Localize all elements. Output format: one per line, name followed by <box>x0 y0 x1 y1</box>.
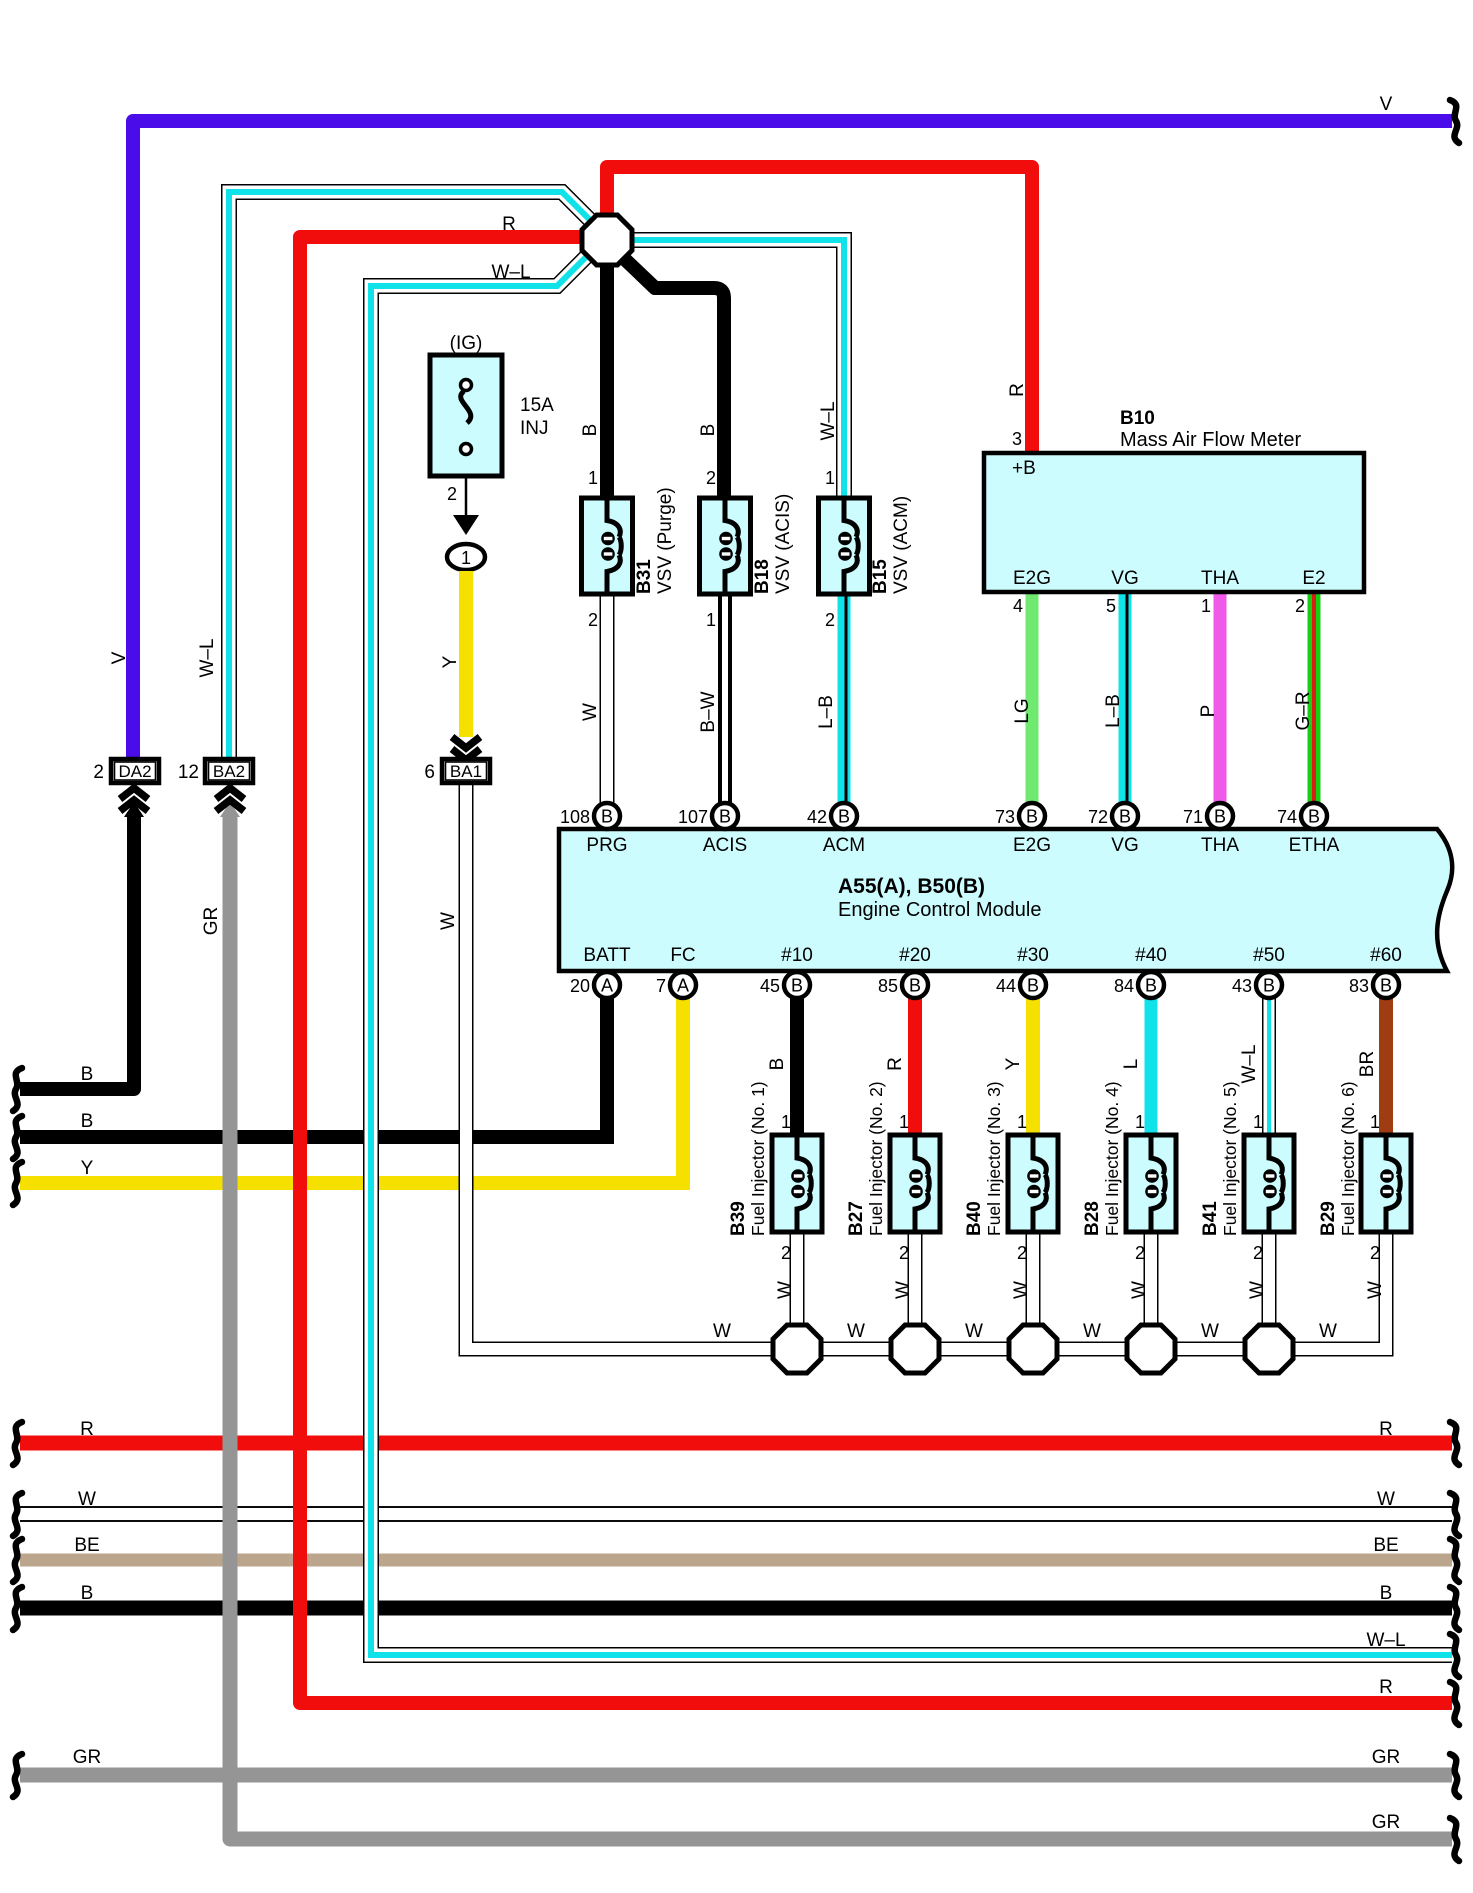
ECM pin 44 <box>1020 972 1046 998</box>
wire B ground bus (to ECM BATT) <box>20 1130 614 1144</box>
svg-text:A: A <box>677 976 689 996</box>
svg-text:R: R <box>1379 1677 1393 1698</box>
svg-text:P: P <box>1198 705 1219 718</box>
ECM pin 71 <box>1207 803 1233 829</box>
svg-text:BA1: BA1 <box>450 762 482 781</box>
ECM pin 20 <box>594 972 620 998</box>
break B left <box>13 1116 22 1159</box>
svg-text:2: 2 <box>825 610 835 630</box>
VSV solenoid B18 <box>700 498 751 594</box>
svg-text:B: B <box>1380 1583 1393 1604</box>
wire BR ECM #60 to injector No.6 <box>1379 997 1393 1137</box>
wire W fuel injector No.3 to junction <box>1026 1232 1041 1349</box>
junction splice injector bus 3 <box>1009 1325 1057 1373</box>
svg-text:W: W <box>893 1281 914 1299</box>
svg-text:Fuel Injector (No. 4): Fuel Injector (No. 4) <box>1102 1081 1122 1236</box>
fuel injector B27 (No. 2) <box>890 1135 940 1232</box>
svg-text:7: 7 <box>656 976 666 996</box>
svg-text:ETHA: ETHA <box>1289 835 1340 856</box>
arrow into BA1 <box>452 737 480 748</box>
wire G-R MAF E2 to ECM ETHA <box>1308 592 1321 804</box>
svg-text:+B: +B <box>1012 458 1036 479</box>
wire Y ECM FC down to bus <box>683 997 690 1183</box>
svg-text:A55(A), B50(B): A55(A), B50(B) <box>838 875 985 898</box>
svg-text:W–L: W–L <box>491 262 530 283</box>
svg-text:Mass Air Flow Meter: Mass Air Flow Meter <box>1120 429 1301 451</box>
ECM pin 85 <box>902 972 928 998</box>
wire R junction to MAF +B <box>607 167 1032 453</box>
break B upper left <box>13 1068 22 1111</box>
wire fuse pin2 lead <box>465 476 468 516</box>
fuse 15A INJ (IG) <box>430 355 502 476</box>
svg-text:Y: Y <box>81 1158 94 1179</box>
break Y left <box>13 1162 22 1205</box>
svg-text:VSV (Purge): VSV (Purge) <box>655 487 676 594</box>
ECM pin 83 <box>1373 972 1399 998</box>
svg-text:#10: #10 <box>781 945 813 966</box>
svg-text:B: B <box>1026 807 1038 827</box>
svg-text:Fuel Injector (No. 2): Fuel Injector (No. 2) <box>866 1081 886 1236</box>
wire GR from BA2 down to GR lower bus <box>230 815 1452 1839</box>
junction splice injector bus 4 <box>1127 1325 1175 1373</box>
svg-text:Fuel Injector (No. 6): Fuel Injector (No. 6) <box>1338 1081 1358 1236</box>
ECM pin 42 <box>831 803 857 829</box>
ECM pin 45 <box>784 972 810 998</box>
wire L-B B15 VSV to ECM ACM <box>838 594 851 804</box>
svg-text:2: 2 <box>1295 596 1305 616</box>
svg-text:4: 4 <box>1013 596 1023 616</box>
wire W fuel injector No.4 to junction <box>1144 1232 1159 1349</box>
svg-text:DA2: DA2 <box>118 762 151 781</box>
wire B junction to B18 VSV pin2 <box>612 247 724 500</box>
svg-text:E2G: E2G <box>1013 568 1051 589</box>
svg-text:2: 2 <box>447 484 457 504</box>
svg-text:1: 1 <box>588 468 598 488</box>
wire W from BA1 to injector common bus <box>466 785 1386 1349</box>
svg-text:B: B <box>767 1058 788 1071</box>
svg-text:THA: THA <box>1201 568 1239 589</box>
svg-text:E2G: E2G <box>1013 835 1051 856</box>
svg-text:BA2: BA2 <box>213 762 245 781</box>
wire L ECM #40 to injector No.4 <box>1145 997 1158 1137</box>
svg-text:2: 2 <box>93 762 104 783</box>
svg-text:Y: Y <box>1003 1057 1024 1070</box>
svg-text:B41: B41 <box>1200 1201 1221 1236</box>
svg-text:W: W <box>438 912 459 930</box>
svg-text:B: B <box>1263 976 1275 996</box>
break GR left <box>13 1754 22 1797</box>
fuel injector B39 (No. 1) <box>772 1135 822 1232</box>
svg-text:107: 107 <box>678 807 708 827</box>
svg-text:E2: E2 <box>1302 568 1325 589</box>
svg-text:B15: B15 <box>870 559 891 594</box>
svg-text:1: 1 <box>461 548 471 568</box>
svg-text:#20: #20 <box>899 945 931 966</box>
svg-text:B: B <box>719 807 731 827</box>
svg-text:W–L: W–L <box>1239 1044 1260 1083</box>
svg-text:B: B <box>838 807 850 827</box>
svg-text:ACM: ACM <box>823 835 865 856</box>
break R right <box>1450 1422 1459 1465</box>
wire W-L shielded to BA2 / junction <box>229 192 594 757</box>
break V top right <box>1450 100 1459 143</box>
svg-text:Engine Control Module: Engine Control Module <box>838 899 1041 921</box>
svg-text:GR: GR <box>73 1747 102 1768</box>
connector DA2 <box>111 759 159 783</box>
connector BA2 <box>205 759 253 783</box>
wire W bottom bus <box>20 1507 1452 1521</box>
svg-text:LG: LG <box>1012 698 1033 723</box>
svg-text:1: 1 <box>1135 1112 1145 1132</box>
svg-text:1: 1 <box>899 1112 909 1132</box>
svg-text:#40: #40 <box>1135 945 1167 966</box>
wire W fuel injector No.5 to junction <box>1262 1232 1277 1349</box>
svg-text:R: R <box>502 214 516 235</box>
svg-text:B: B <box>1027 976 1039 996</box>
svg-text:74: 74 <box>1277 807 1297 827</box>
svg-text:B: B <box>1119 807 1131 827</box>
svg-text:71: 71 <box>1183 807 1203 827</box>
svg-text:W: W <box>965 1321 983 1342</box>
break BE left <box>13 1539 22 1582</box>
svg-text:#30: #30 <box>1017 945 1049 966</box>
svg-text:83: 83 <box>1349 976 1369 996</box>
ECM A55(A) B50(B) Engine Control Module <box>559 829 1452 971</box>
svg-text:VSV (ACIS): VSV (ACIS) <box>773 494 794 594</box>
fuel injector B28 (No. 4) <box>1126 1135 1176 1232</box>
svg-text:1: 1 <box>706 610 716 630</box>
svg-text:2: 2 <box>781 1243 791 1263</box>
svg-text:B: B <box>1308 807 1320 827</box>
svg-text:B10: B10 <box>1120 408 1155 429</box>
svg-text:R: R <box>1007 383 1028 397</box>
svg-text:VSV (ACM): VSV (ACM) <box>891 496 912 594</box>
svg-text:W: W <box>713 1321 731 1342</box>
fuel injector B41 (No. 5) <box>1244 1135 1294 1232</box>
svg-text:2: 2 <box>1017 1243 1027 1263</box>
svg-text:V: V <box>1380 94 1393 115</box>
wire B junction to B31 VSV pin1 <box>600 262 614 500</box>
svg-text:B39: B39 <box>728 1201 749 1236</box>
arrow BA2 <box>216 788 244 799</box>
svg-text:W–L: W–L <box>1366 1630 1405 1651</box>
svg-text:2: 2 <box>1253 1243 1263 1263</box>
junction splice J1 <box>582 215 632 265</box>
svg-text:B: B <box>1380 976 1392 996</box>
svg-text:B: B <box>81 1064 94 1085</box>
svg-text:6: 6 <box>424 762 435 783</box>
svg-text:A: A <box>601 976 613 996</box>
svg-text:GR: GR <box>1372 1747 1401 1768</box>
svg-text:42: 42 <box>807 807 827 827</box>
ECM pin 108 <box>594 803 620 829</box>
break R left <box>13 1422 22 1465</box>
svg-text:R: R <box>885 1057 906 1071</box>
svg-text:B31: B31 <box>634 559 655 594</box>
svg-text:R: R <box>1379 1419 1393 1440</box>
ECM pin 107 <box>712 803 738 829</box>
wire W-L inner loop to bottom bus <box>371 257 1452 1655</box>
svg-text:W–L: W–L <box>818 401 839 440</box>
svg-text:1: 1 <box>1201 596 1211 616</box>
svg-text:L–B: L–B <box>1103 694 1124 728</box>
svg-text:85: 85 <box>878 976 898 996</box>
svg-text:44: 44 <box>996 976 1016 996</box>
junction splice injector bus 5 <box>1245 1325 1293 1373</box>
ECM pin 72 <box>1112 803 1138 829</box>
svg-text:108: 108 <box>560 807 590 827</box>
wire Y bus (to ECM FC) <box>20 1176 690 1190</box>
wire B-W B18 VSV to ECM ACIS <box>718 594 732 804</box>
svg-text:Fuel Injector (No. 5): Fuel Injector (No. 5) <box>1220 1081 1240 1236</box>
component B10 Mass Air Flow Meter <box>984 453 1364 592</box>
svg-text:THA: THA <box>1201 835 1239 856</box>
svg-text:GR: GR <box>1372 1812 1401 1833</box>
svg-text:B: B <box>81 1111 94 1132</box>
svg-text:W: W <box>1201 1321 1219 1342</box>
arrow DA2 <box>120 788 148 799</box>
VSV solenoid B31 <box>582 498 633 594</box>
wire W-L ECM #50 to injector No.5 <box>1262 997 1276 1137</box>
svg-text:BE: BE <box>1373 1535 1398 1556</box>
break B right <box>1450 1587 1459 1630</box>
wire B bottom bus <box>20 1601 1452 1616</box>
svg-text:W: W <box>1129 1281 1150 1299</box>
svg-text:W: W <box>847 1321 865 1342</box>
svg-text:B18: B18 <box>752 559 773 594</box>
ECM pin 84 <box>1138 972 1164 998</box>
svg-text:VG: VG <box>1111 835 1138 856</box>
svg-text:1: 1 <box>781 1112 791 1132</box>
svg-text:B29: B29 <box>1318 1201 1339 1236</box>
svg-text:B: B <box>1214 807 1226 827</box>
wire W fuel injector No.1 to junction <box>790 1232 805 1349</box>
break R lower right <box>1450 1682 1459 1725</box>
svg-text:W–L: W–L <box>197 638 218 677</box>
svg-text:2: 2 <box>1370 1243 1380 1263</box>
ECM pin 73 <box>1019 803 1045 829</box>
svg-text:FC: FC <box>670 945 695 966</box>
svg-text:#50: #50 <box>1253 945 1285 966</box>
wire W-L junction to B15 VSV pin1 <box>628 240 844 500</box>
junction splice injector bus 2 <box>891 1325 939 1373</box>
svg-text:12: 12 <box>178 762 199 783</box>
svg-text:73: 73 <box>995 807 1015 827</box>
svg-text:L–B: L–B <box>816 695 837 729</box>
svg-text:R: R <box>80 1419 94 1440</box>
wire Y ECM #30 to injector No.3 <box>1026 997 1040 1137</box>
svg-text:W: W <box>775 1281 796 1299</box>
svg-text:2: 2 <box>899 1243 909 1263</box>
svg-text:B28: B28 <box>1082 1201 1103 1236</box>
svg-text:B: B <box>601 807 613 827</box>
svg-text:G–R: G–R <box>1293 691 1314 730</box>
svg-text:INJ: INJ <box>520 418 549 439</box>
svg-text:BR: BR <box>1357 1051 1378 1077</box>
wire V (violet) top bus to DA2 <box>133 121 1452 757</box>
ECM pin 43 <box>1256 972 1282 998</box>
wire W fuel injector No.2 to junction <box>908 1232 923 1349</box>
svg-text:2: 2 <box>1135 1243 1145 1263</box>
svg-text:PRG: PRG <box>586 835 627 856</box>
svg-text:84: 84 <box>1114 976 1134 996</box>
break W left <box>13 1493 22 1536</box>
wire W B31 VSV to ECM PRG <box>600 594 615 804</box>
arrow to node 1 <box>453 515 479 535</box>
svg-text:W: W <box>1365 1281 1386 1299</box>
wire Y fuse to BA1 <box>459 571 473 737</box>
svg-text:B: B <box>909 976 921 996</box>
svg-text:B: B <box>81 1583 94 1604</box>
break GR lower right <box>1450 1818 1459 1861</box>
break B bottom left <box>13 1587 22 1630</box>
svg-text:B–W: B–W <box>698 691 719 732</box>
svg-text:5: 5 <box>1106 596 1116 616</box>
svg-text:B: B <box>698 424 719 437</box>
svg-text:ACIS: ACIS <box>703 835 747 856</box>
break W-L right <box>1450 1634 1459 1677</box>
VSV solenoid B15 <box>819 498 870 594</box>
svg-text:#60: #60 <box>1370 945 1402 966</box>
svg-text:L: L <box>1121 1059 1142 1070</box>
svg-text:W: W <box>1247 1281 1268 1299</box>
wire GR bus <box>20 1768 1452 1783</box>
svg-text:20: 20 <box>570 976 590 996</box>
junction splice injector bus 1 <box>773 1325 821 1373</box>
break BE right <box>1450 1539 1459 1582</box>
svg-text:B27: B27 <box>846 1201 867 1236</box>
fuel injector B29 (No. 6) <box>1361 1135 1411 1232</box>
wire R bottom bus <box>20 1436 1452 1451</box>
svg-text:W: W <box>580 703 601 721</box>
svg-text:W: W <box>1083 1321 1101 1342</box>
fuel injector B40 (No. 3) <box>1008 1135 1058 1232</box>
svg-text:Fuel Injector (No. 1): Fuel Injector (No. 1) <box>748 1081 768 1236</box>
svg-text:1: 1 <box>1017 1112 1027 1132</box>
svg-text:Y: Y <box>440 655 461 668</box>
connector BA1 <box>442 759 490 783</box>
wire R from junction left, down and to R lower bus <box>300 237 1452 1703</box>
wire L-B MAF VG to ECM <box>1119 592 1132 804</box>
wire R ECM #20 to injector No.2 <box>908 997 922 1137</box>
svg-text:B: B <box>1145 976 1157 996</box>
break GR right <box>1450 1754 1459 1797</box>
node 1 ellipse <box>447 544 485 570</box>
wire BE bottom bus <box>20 1554 1452 1567</box>
svg-text:(IG): (IG) <box>450 333 483 354</box>
svg-text:2: 2 <box>706 468 716 488</box>
svg-text:1: 1 <box>825 468 835 488</box>
wire B from DA2 down to ground bus <box>20 812 134 1089</box>
svg-text:BE: BE <box>74 1535 99 1556</box>
svg-text:1: 1 <box>1253 1112 1263 1132</box>
svg-text:W: W <box>78 1489 96 1510</box>
svg-text:W: W <box>1319 1321 1337 1342</box>
svg-text:W: W <box>1377 1489 1395 1510</box>
wire LG MAF E2G to ECM <box>1026 592 1039 804</box>
wire B ECM BATT down to bus <box>607 997 614 1137</box>
break W right <box>1450 1493 1459 1536</box>
ECM pin 7 <box>670 972 696 998</box>
svg-text:BATT: BATT <box>583 945 631 966</box>
svg-text:2: 2 <box>588 610 598 630</box>
svg-text:1: 1 <box>1370 1112 1380 1132</box>
wire P MAF THA to ECM <box>1214 592 1227 804</box>
svg-text:V: V <box>109 651 130 664</box>
svg-text:15A: 15A <box>520 395 554 416</box>
svg-text:3: 3 <box>1012 429 1022 449</box>
svg-text:VG: VG <box>1111 568 1138 589</box>
svg-text:B: B <box>791 976 803 996</box>
svg-text:Fuel Injector (No. 3): Fuel Injector (No. 3) <box>984 1081 1004 1236</box>
svg-text:W: W <box>1011 1281 1032 1299</box>
svg-text:43: 43 <box>1232 976 1252 996</box>
svg-text:B40: B40 <box>964 1201 985 1236</box>
svg-text:B: B <box>580 424 601 437</box>
ECM pin 74 <box>1301 803 1327 829</box>
svg-text:72: 72 <box>1088 807 1108 827</box>
svg-text:GR: GR <box>201 907 222 936</box>
wire B ECM #10 to injector No.1 <box>790 997 804 1137</box>
svg-text:45: 45 <box>760 976 780 996</box>
